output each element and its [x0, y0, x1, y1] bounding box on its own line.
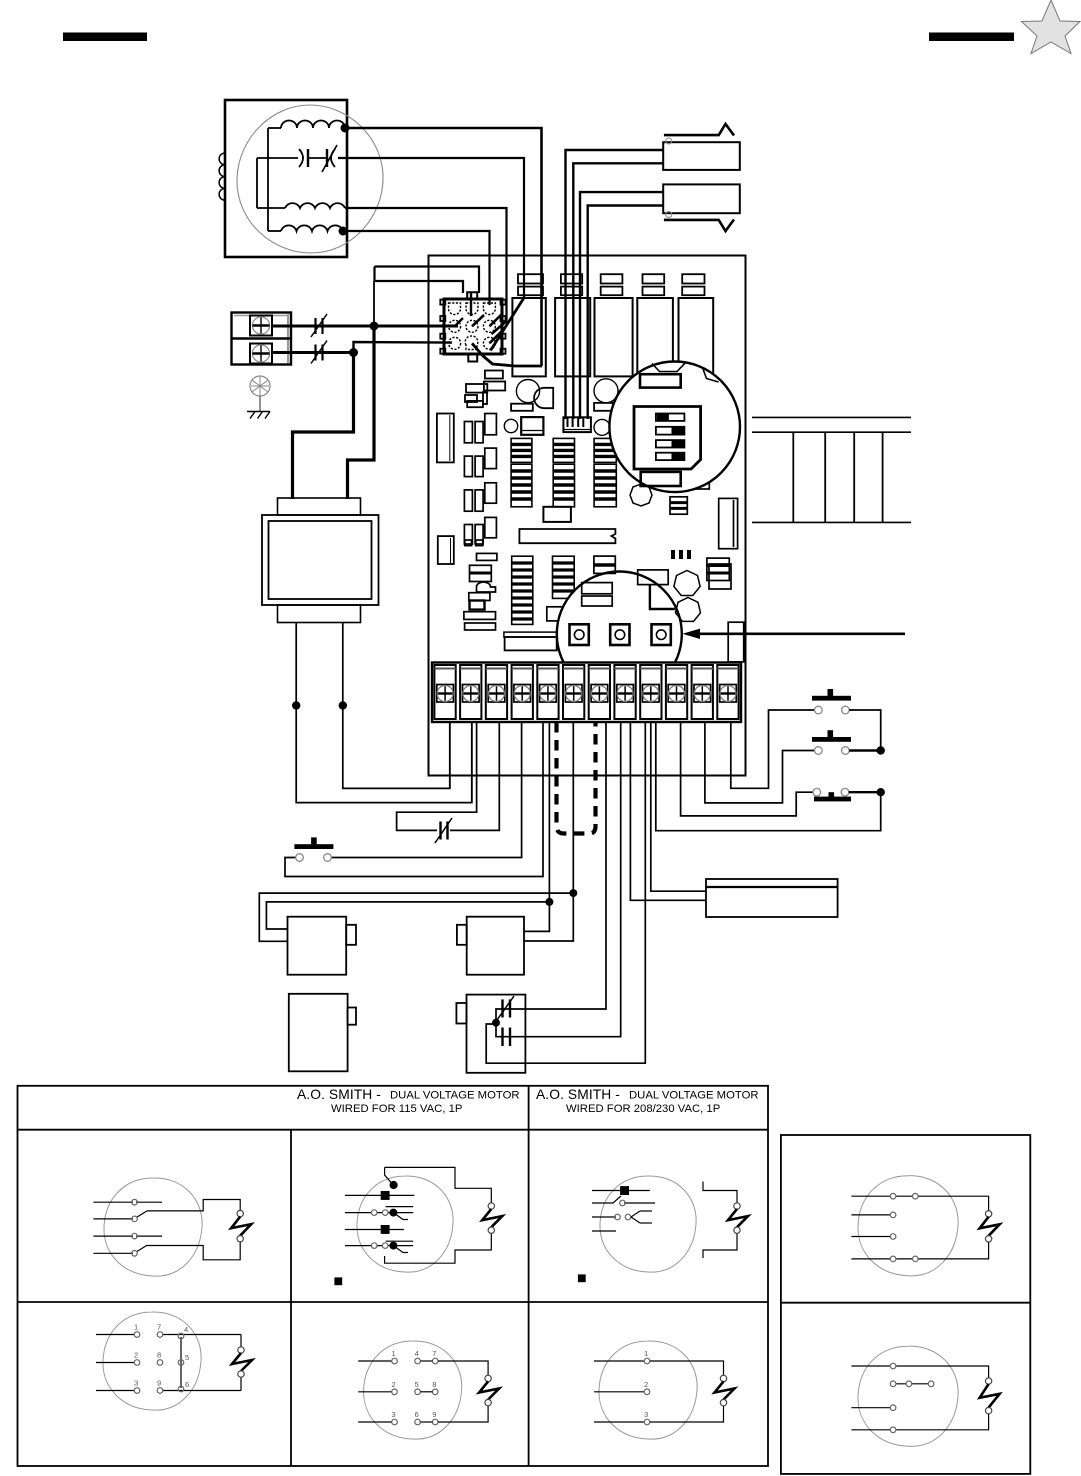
- pressure switch box2: [457, 917, 524, 975]
- resistor array E lower: [553, 556, 575, 598]
- table motor B3: [594, 1341, 735, 1439]
- svg-text:9: 9: [157, 1379, 161, 1388]
- relay K4: [637, 298, 673, 376]
- header bar left: [63, 33, 147, 42]
- component pair row 3: [464, 483, 496, 511]
- svg-text:1: 1: [644, 1349, 648, 1358]
- right table motor C2: [851, 1346, 999, 1446]
- star logo: [1022, 0, 1081, 54]
- relay K3: [595, 298, 633, 376]
- svg-text:7: 7: [432, 1349, 436, 1358]
- wire T5a to button left loop: [285, 722, 543, 877]
- wire T9b to box4 bottom: [486, 722, 645, 1063]
- lower magnifier contents upper stacks: [582, 556, 676, 609]
- wire F1 lead b: [573, 163, 663, 419]
- svg-text:7: 7: [157, 1323, 161, 1332]
- wire T1 to transformer: [449, 722, 451, 788]
- DIP label pad top: [640, 374, 681, 387]
- wire TB1 line2: [272, 342, 452, 353]
- resistor array B: [553, 438, 574, 506]
- ground screw: [250, 376, 270, 396]
- svg-text:2: 2: [644, 1380, 648, 1389]
- svg-text:5: 5: [415, 1380, 419, 1389]
- pressure switch box1: [288, 917, 357, 975]
- J1 pin 9: [483, 337, 495, 349]
- node T6 junction: [569, 889, 577, 897]
- resistor array D lower: [512, 556, 533, 624]
- J1 pin 5: [466, 320, 478, 332]
- wire motor lead3 to J1: [345, 208, 507, 322]
- svg-text:2: 2: [134, 1351, 138, 1360]
- svg-text:6: 6: [415, 1410, 419, 1419]
- terminal strip cells: [434, 665, 738, 719]
- wire TB line1 to transformer: [348, 326, 375, 499]
- wide IC lower: [504, 632, 557, 650]
- wire T2a down: [471, 722, 473, 803]
- component rect right of array: [547, 607, 563, 621]
- component capacitor C-big1: [516, 380, 539, 403]
- switch SW1: [812, 689, 851, 714]
- svg-text:A.O. SMITH -: A.O. SMITH -: [536, 1087, 620, 1102]
- J1 pin 2: [466, 303, 478, 315]
- wire motor lead1 to J1: [345, 128, 542, 366]
- component heptagon 1: [674, 571, 700, 596]
- node TB line2 junction: [349, 348, 358, 357]
- svg-text:6: 6: [185, 1380, 189, 1389]
- component field upper-left: [465, 371, 505, 408]
- table motor A2 (115 VAC): [335, 1167, 502, 1284]
- relay K3 pads: [601, 274, 623, 295]
- wire TB line2 to transformer: [293, 353, 354, 500]
- test button 2: [610, 624, 629, 645]
- DIP bottom pad: [641, 472, 681, 486]
- wire F2 lead b: [588, 206, 664, 420]
- wire F2 lead a: [580, 192, 663, 419]
- header bar right: [929, 33, 1014, 42]
- svg-text:WIRED FOR 115 VAC, 1P: WIRED FOR 115 VAC, 1P: [331, 1103, 462, 1115]
- terminal strip TS1: [432, 663, 741, 723]
- svg-text:3: 3: [392, 1410, 396, 1419]
- J1 pin 8: [465, 336, 478, 350]
- relay K1: [512, 298, 545, 376]
- component circle small right: [594, 419, 610, 435]
- table motor A3 (208/230 VAC): [579, 1176, 749, 1282]
- right column components: [670, 470, 738, 589]
- motor main winding (top coil): [268, 121, 345, 128]
- test button 1: [570, 624, 589, 645]
- node bus SW2: [877, 746, 885, 754]
- spade connector F2: [663, 184, 740, 231]
- capacitor C-loop: [435, 818, 452, 843]
- svg-text:DUAL VOLTAGE MOTOR: DUAL VOLTAGE MOTOR: [629, 1090, 759, 1102]
- wire motor lead4 to J1: [343, 231, 490, 305]
- motor run capacitor: [257, 145, 337, 172]
- header col3 text: [536, 1087, 759, 1115]
- DIP switch body: [634, 407, 701, 470]
- relay K2: [555, 298, 590, 376]
- J1 pin 4: [449, 320, 461, 332]
- svg-text:9: 9: [432, 1410, 436, 1419]
- DIP switch row 4: [656, 453, 685, 460]
- wire transformer secondary right: [343, 623, 450, 789]
- wire T6 to pressure switches: [524, 722, 573, 941]
- wire J1 pin8 branch: [472, 343, 542, 366]
- J1 pin 1: [449, 303, 461, 315]
- wire box1 upper loop: [266, 902, 549, 929]
- component tall cap left lower: [438, 536, 454, 564]
- svg-text:5: 5: [185, 1353, 189, 1362]
- right table motor C1: [851, 1176, 999, 1276]
- svg-text:3: 3: [644, 1410, 648, 1419]
- svg-text:A.O. SMITH -: A.O. SMITH -: [297, 1087, 381, 1102]
- wire T11 to switch SW3: [681, 722, 813, 816]
- node motor lead 1: [341, 124, 350, 133]
- node bus SW3: [877, 788, 885, 796]
- strain relief on line2: [311, 341, 327, 364]
- svg-text:4: 4: [184, 1325, 188, 1334]
- wire T9a to element lower: [630, 722, 706, 900]
- component hex below DIP: [630, 484, 652, 506]
- component pair row 2: [464, 448, 496, 477]
- wire SW3 right to bus: [849, 791, 881, 793]
- DIP switch row 3: [656, 440, 685, 447]
- motor start winding (bottom coil): [268, 225, 343, 231]
- svg-text:1: 1: [392, 1349, 396, 1358]
- ground symbol: [247, 396, 270, 419]
- box4 capacitor 1: [497, 996, 514, 1020]
- DIP relay5 ghost edges: [652, 363, 719, 382]
- thermostat box4: [456, 995, 525, 1073]
- heater element box: [706, 879, 838, 917]
- component box mid: [521, 417, 543, 435]
- wire T12a to switch SW2: [705, 722, 815, 803]
- wire motor lead2 to J1: [338, 158, 524, 298]
- wire transformer secondary left: [296, 623, 472, 803]
- motor frame winding (vertical coil): [219, 153, 225, 200]
- switch SW2: [812, 730, 851, 754]
- component tall rect right edge: [728, 622, 744, 662]
- motor M1 body circle: [237, 105, 383, 253]
- TB1 screw 2: [250, 344, 272, 364]
- J1 pin 3: [483, 303, 495, 315]
- wire T4 to button right: [328, 722, 522, 858]
- component vertical bars top of lower circle: [673, 550, 689, 559]
- wire SW2 right to bus: [849, 749, 881, 751]
- strain relief on line1: [311, 314, 327, 337]
- table motor B1: [96, 1312, 252, 1410]
- wire J1 diagonal feed 2: [491, 297, 525, 351]
- component field lower-left: [464, 540, 497, 630]
- DIP magnifier circle: [609, 362, 740, 493]
- component small circle: [504, 419, 517, 432]
- relay K4 pads: [643, 274, 665, 295]
- node transformer sec right: [339, 701, 347, 709]
- J1 pin crimp stubs: [455, 293, 504, 343]
- right table frame: [781, 1135, 1030, 1474]
- box4 internal wires: [496, 1009, 513, 1037]
- resistor array C: [594, 438, 616, 506]
- svg-text:1: 1: [134, 1323, 138, 1332]
- component pad right: [594, 403, 613, 411]
- wire T5b to pressure switches: [524, 722, 549, 931]
- IC chip bar: [519, 529, 615, 543]
- svg-text:WIRED FOR 208/230 VAC, 1P: WIRED FOR 208/230 VAC, 1P: [566, 1103, 720, 1115]
- component tall cap left: [437, 414, 454, 463]
- header col2 text: [297, 1087, 520, 1115]
- relay K1 pads: [518, 274, 543, 295]
- push button SW4: [294, 837, 333, 861]
- wire box1 lower loop: [259, 893, 573, 941]
- component CPU circle: [594, 379, 618, 403]
- node TB line1 junction: [370, 322, 379, 331]
- wire TB1 line1 to J1 pin: [272, 325, 458, 328]
- motor aux winding (middle coil): [257, 203, 345, 208]
- svg-text:3: 3: [134, 1379, 138, 1388]
- relay K5: [679, 298, 714, 376]
- lower magnifier circle: [557, 572, 682, 697]
- resistor array A: [511, 438, 532, 506]
- component stack right upper: [707, 558, 729, 580]
- DIP switch row 1: [656, 414, 685, 421]
- J1 pin 6: [483, 320, 495, 332]
- node T5b junction: [545, 898, 553, 906]
- wire F1 lead a: [566, 150, 664, 419]
- DIP switch row 2: [656, 427, 685, 435]
- hollow supply trace: [374, 267, 479, 327]
- svg-text:DUAL VOLTAGE MOTOR: DUAL VOLTAGE MOTOR: [390, 1090, 520, 1102]
- terminal block TB1: [232, 313, 292, 365]
- component wide rect below arrays: [543, 507, 571, 522]
- node transformer sec left: [292, 701, 300, 709]
- wire T8b to box4 cap2: [513, 722, 621, 1037]
- wire T10b to right bus bottom: [656, 722, 881, 831]
- svg-text:2: 2: [392, 1380, 396, 1389]
- relay K2 pads: [561, 274, 582, 295]
- spade connector F1: [663, 124, 740, 170]
- relay K5 pads: [682, 274, 704, 295]
- table motor B2: [358, 1341, 499, 1439]
- table motor A1: [93, 1178, 251, 1276]
- wire T2b capacitor loop: [397, 722, 500, 830]
- ladder connector right: [752, 417, 911, 522]
- wire-bundle footprint: [563, 417, 591, 432]
- motor internal link wires: [257, 128, 268, 231]
- lower table frame: [18, 1086, 769, 1466]
- svg-text:8: 8: [432, 1380, 436, 1389]
- wire T8a to box4 cap1: [513, 722, 606, 1009]
- pointer arrow to buttons: [683, 629, 906, 639]
- TB1 screw 1: [250, 316, 272, 336]
- pressure switch box3: [289, 994, 356, 1072]
- wire SW1 right to bus: [849, 710, 881, 751]
- component pair row 4: [464, 517, 496, 544]
- node box4 junction: [492, 1019, 500, 1027]
- component pad under C-big1: [511, 404, 533, 411]
- transformer T1: [262, 498, 379, 623]
- test button 3: [652, 624, 671, 645]
- switch SW3: [813, 788, 851, 801]
- connector J1 body: [440, 292, 505, 361]
- wire T12b to switch SW1: [731, 710, 815, 788]
- wire J1 diagonal feed 3: [492, 321, 508, 335]
- dashed sensor wire: [557, 722, 596, 834]
- component pair row 1: [464, 414, 496, 443]
- node motor lead 4: [339, 227, 348, 236]
- PCB board outline: [429, 256, 746, 776]
- component diode D-shape1: [534, 388, 553, 408]
- component heptagon 2: [676, 598, 701, 622]
- svg-text:4: 4: [415, 1349, 419, 1358]
- box4 capacitor 2: [503, 1028, 511, 1047]
- J1 pin 7: [449, 337, 461, 349]
- svg-text:8: 8: [157, 1351, 161, 1360]
- wire T10a to element upper: [651, 722, 706, 891]
- motor M1 frame: [225, 100, 347, 257]
